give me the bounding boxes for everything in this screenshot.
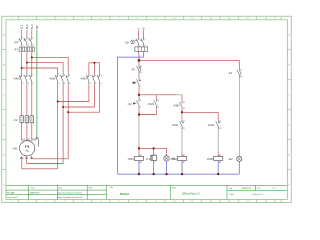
- lamp H2: [237, 156, 242, 161]
- wire red stub to junction G: [138, 146, 140, 148]
- svg-text:-H2: -H2: [228, 157, 233, 161]
- svg-text:Mont Quartier Essono foe: Mont Quartier Essono foe: [58, 196, 84, 199]
- coil KM3: [214, 156, 223, 160]
- junction N2: [153, 173, 155, 175]
- breaker Q2 pole 1: [135, 37, 138, 46]
- wire E to KM1 aux: [155, 95, 157, 99]
- svg-text:-KM3: -KM3: [173, 103, 180, 107]
- svg-text:-F1: -F1: [14, 48, 19, 52]
- svg-text:A2: A2: [219, 161, 221, 164]
- wire rail corner to lamp H1: [154, 148, 167, 155]
- svg-text:-F2: -F2: [228, 71, 233, 75]
- lamp H1: [164, 156, 169, 161]
- wire KM2 pole3 output down: [67, 84, 69, 158]
- thermal relay F2 pole 3: [30, 116, 34, 123]
- svg-text:21: 21: [183, 121, 185, 123]
- svg-text:-P1: -P1: [146, 157, 151, 161]
- wire control live rail: [139, 59, 239, 61]
- device P1 (hour counter): [151, 155, 157, 160]
- svg-text:4: 4: [28, 83, 29, 85]
- wire L1 to junction A: [21, 52, 23, 68]
- svg-text:5: 5: [101, 75, 102, 77]
- svg-text:A2: A2: [140, 161, 142, 164]
- wire phase L3 feed to KM2 pole3: [32, 57, 68, 73]
- svg-text:F: F: [289, 184, 291, 186]
- svg-text:E: E: [3, 154, 5, 156]
- wire rail to F2 aux contact: [138, 61, 140, 64]
- wire KM3 pole2 output to node D2: [63, 84, 94, 107]
- motor PE connection: [36, 138, 37, 140]
- svg-text:Folio: Folio: [172, 187, 176, 189]
- svg-text:-KM1: -KM1: [127, 157, 134, 161]
- wire phase L1 feed to KM2 pole1: [22, 68, 58, 73]
- svg-text:Folio: Folio: [88, 187, 92, 189]
- stop button S1 (NC): [133, 78, 141, 88]
- svg-text:1: 1: [90, 75, 91, 77]
- wire segment green to KM3 branch: [177, 94, 182, 96]
- wire H1 to N: [166, 161, 168, 174]
- thermal relay F2 pole 2: [25, 116, 29, 123]
- svg-text:3: 3: [140, 100, 141, 102]
- svg-text:Folio:: Folio:: [229, 194, 234, 196]
- svg-text:6: 6: [69, 83, 70, 85]
- svg-text:A1: A1: [140, 154, 142, 157]
- motor M1: [20, 141, 35, 156]
- junction N4: [181, 173, 183, 175]
- wire green corner down to KM3 aux: [181, 95, 183, 101]
- svg-text:11/08/2023: 11/08/2023: [242, 188, 251, 190]
- svg-text:Coty check: Coty check: [7, 196, 19, 199]
- wire S1 to junction E: [138, 87, 140, 94]
- wire L1 supply drop: [21, 30, 23, 37]
- svg-text:PE: PE: [35, 25, 39, 29]
- svg-text:2: 2: [23, 123, 24, 125]
- wire S2 bottom join: [139, 108, 156, 114]
- svg-text:-KM1: -KM1: [171, 123, 178, 127]
- wire L2 into KM1: [26, 63, 28, 73]
- svg-text:2: 2: [154, 162, 155, 164]
- contact KM2 interlock (NC): [216, 120, 221, 130]
- wire G down to KM1 coil: [138, 148, 140, 156]
- svg-text:13: 13: [183, 102, 185, 104]
- svg-text:98: 98: [240, 76, 242, 78]
- wire KM1 coil to N: [138, 160, 140, 174]
- wire coil feed rail: [139, 147, 154, 149]
- border frame outer: [2, 16, 291, 202]
- svg-text:QElectroTech 1.0: QElectroTech 1.0: [182, 192, 200, 195]
- wire gray down to junction G: [138, 116, 140, 147]
- junction C (L3 tap): [31, 57, 33, 59]
- wire P1 to N: [153, 160, 155, 174]
- wire live from Q2 to rail start: [137, 51, 140, 60]
- svg-text:1: 1: [154, 154, 155, 156]
- svg-text:6: 6: [101, 83, 102, 85]
- svg-text:Fol.: Fol.: [258, 188, 262, 190]
- svg-text:BINAM: BINAM: [120, 192, 130, 196]
- svg-text:-M1: -M1: [12, 147, 17, 151]
- svg-text:4: 4: [144, 45, 145, 47]
- junction G: [138, 147, 140, 149]
- svg-text:4: 4: [95, 83, 96, 85]
- svg-text:C: C: [3, 95, 5, 97]
- wire interlock down to KM2 coil: [181, 129, 183, 151]
- svg-text:A: A: [288, 34, 290, 37]
- svg-text:B: B: [288, 65, 290, 67]
- svg-text:96: 96: [140, 72, 142, 74]
- svg-text:3L2: 3L2: [25, 24, 29, 29]
- svg-text:1L1: 1L1: [20, 24, 24, 29]
- circuit breaker Q1 pole 3: [29, 37, 32, 47]
- svg-text:22: 22: [219, 128, 221, 130]
- wire neutral rail bottom: [118, 173, 240, 175]
- wire F2 pole 1 to motor: [21, 122, 23, 140]
- wire L3 to junction C: [31, 52, 33, 58]
- svg-text:A: A: [3, 34, 5, 37]
- svg-text:A1: A1: [219, 154, 221, 157]
- junction N1: [138, 173, 140, 175]
- wire KM2 pole2 output down: [62, 84, 64, 163]
- junction A (L1 tap): [21, 67, 23, 69]
- wire rail corner down to F2 aux NO: [238, 60, 240, 68]
- svg-text:-F2: -F2: [13, 118, 18, 122]
- svg-text:1: 1: [59, 75, 60, 77]
- svg-text:5: 5: [69, 75, 70, 77]
- wire H2 to N: [238, 162, 240, 175]
- svg-text:3: 3: [28, 38, 29, 40]
- svg-text:21: 21: [219, 121, 221, 123]
- svg-text:4: 4: [140, 107, 141, 109]
- wire F2 pole 2 to motor: [26, 122, 28, 140]
- svg-text:6: 6: [33, 45, 34, 47]
- svg-text:6: 6: [33, 123, 34, 125]
- wire L3 supply drop: [31, 30, 33, 37]
- contactor KM2 pole 1: [55, 73, 58, 84]
- svg-text:Date: Date: [58, 186, 62, 189]
- wire KM2 pole1 output down: [57, 84, 59, 168]
- wire I down gray: [181, 113, 183, 119]
- svg-text:Fol.: Fol.: [229, 188, 233, 190]
- svg-text:2: 2: [23, 83, 24, 85]
- wire KM1 pole 3 output to F2 thermal: [31, 84, 33, 115]
- contactor KM3 pole 3: [97, 73, 100, 84]
- svg-text:-KM1: -KM1: [148, 102, 155, 106]
- wire KM1 pole 1 output to F2 thermal: [21, 84, 23, 115]
- svg-text:2: 2: [23, 45, 24, 47]
- svg-text:22: 22: [183, 128, 185, 130]
- svg-text:4: 4: [64, 83, 65, 85]
- svg-text:-Q2: -Q2: [124, 40, 129, 44]
- contactor KM2 pole 3: [66, 73, 69, 84]
- wire phase L2 feed to KM2 pole2: [27, 63, 63, 74]
- contactor KM1 pole 3: [29, 73, 32, 84]
- svg-text:13: 13: [157, 100, 159, 102]
- svg-text:4: 4: [28, 123, 29, 125]
- svg-text:C: C: [288, 95, 290, 97]
- wire F2 pole 3 to motor: [31, 122, 33, 140]
- svg-text:1: 1: [139, 39, 140, 41]
- contact F2 aux NO (97-98): [237, 68, 241, 78]
- svg-text:D: D: [3, 125, 5, 127]
- wire L1 into KM1: [21, 69, 23, 74]
- svg-text:4: 4: [28, 45, 29, 47]
- wire KM3 pole1 output to node D1: [58, 84, 89, 101]
- svg-text:97: 97: [240, 70, 242, 72]
- contactor KM1 pole 2: [24, 73, 27, 84]
- svg-text:5: 5: [33, 38, 34, 40]
- junction D1: [57, 101, 59, 103]
- svg-text:-KM2: -KM2: [170, 157, 177, 161]
- svg-text:B: B: [3, 65, 5, 67]
- contactor KM1 pole 1: [19, 73, 22, 84]
- wire E down to S2: [138, 96, 140, 99]
- svg-text:1: 1: [23, 38, 24, 40]
- wire KM1 pole 2 output to F2 thermal: [26, 84, 28, 115]
- junction star point: [94, 62, 96, 64]
- coil KM1: [134, 156, 143, 160]
- svg-text:Titre: Titre: [31, 186, 35, 189]
- svg-text:3: 3: [95, 75, 96, 77]
- contactor KM2 pole 2: [61, 73, 64, 84]
- svg-text:-S2: -S2: [127, 102, 132, 106]
- svg-text:1: 1: [23, 75, 24, 77]
- svg-text:2: 2: [59, 83, 60, 85]
- contactor KM3 pole 2: [92, 73, 95, 84]
- svg-text:A2: A2: [183, 161, 185, 164]
- svg-text:F: F: [3, 184, 5, 186]
- junction I: [181, 111, 183, 113]
- border frame inner: [6, 20, 287, 200]
- svg-text:PE: PE: [36, 138, 40, 141]
- svg-text:2: 2: [90, 83, 91, 85]
- contact KM1 interlock (NC): [180, 120, 185, 130]
- wire L3 into KM1: [31, 58, 33, 73]
- wire PE vertical: [36, 30, 38, 139]
- svg-text:5L3: 5L3: [30, 24, 34, 29]
- wire I across to KM3 branch: [182, 111, 218, 113]
- svg-text:6: 6: [33, 83, 34, 85]
- breaker Q2 indicator circle: [131, 40, 135, 44]
- svg-text:GARVIEU: GARVIEU: [30, 191, 40, 194]
- junction B (L2 tap): [26, 62, 28, 64]
- contact F2 aux NC (95-96): [137, 65, 142, 74]
- svg-text:-S1: -S1: [131, 81, 136, 85]
- junction N3: [166, 173, 168, 175]
- svg-text:1 / 1: 1 / 1: [272, 188, 276, 190]
- svg-text:-KM3: -KM3: [80, 76, 87, 80]
- title block grid: [6, 185, 287, 199]
- svg-text:-KM3: -KM3: [206, 157, 213, 161]
- svg-text:E: E: [288, 154, 290, 156]
- svg-text:14: 14: [183, 108, 185, 110]
- fuse holder F1 pole 1: [19, 47, 21, 51]
- svg-text:-Q1: -Q1: [14, 40, 19, 44]
- svg-text:3: 3: [28, 116, 29, 118]
- svg-text:N: N: [142, 28, 146, 30]
- svg-text:-F2: -F2: [131, 67, 136, 71]
- wire motor V2 loop to KM2 pole3 output: [32, 156, 69, 159]
- svg-text:a-folio-ref 1:1: a-folio-ref 1:1: [252, 193, 263, 196]
- svg-text:-KM1: -KM1: [13, 76, 20, 80]
- wire KM3 aux to junction I: [181, 109, 183, 112]
- svg-text:Gare locomotive Yaound: Gare locomotive Yaound: [58, 191, 83, 194]
- svg-text:D: D: [288, 125, 290, 127]
- wire junction E across: [139, 94, 177, 96]
- svg-text:-KM2: -KM2: [208, 123, 215, 127]
- wire L2 supply drop: [26, 30, 28, 37]
- svg-text:5: 5: [33, 116, 34, 118]
- wire H down to P1: [153, 148, 155, 155]
- junction rail start: [138, 59, 140, 61]
- wire KM3 coil to N: [217, 160, 219, 174]
- wire motor W2 loop to KM2 pole1 output: [22, 156, 58, 169]
- contact KM3 aux (NO): [180, 100, 183, 109]
- svg-text:3: 3: [28, 75, 29, 77]
- svg-text:1: 1: [23, 116, 24, 118]
- circuit breaker Q1 pole 2: [24, 37, 27, 47]
- wire corner to KM2 interlock: [217, 112, 219, 119]
- svg-text:A1: A1: [183, 154, 185, 157]
- svg-text:1: 1: [136, 28, 140, 30]
- svg-text:3: 3: [144, 39, 145, 41]
- fuse holder F1 pole 3: [29, 47, 31, 51]
- svg-text:PE-BAH: PE-BAH: [7, 191, 16, 194]
- junction E: [138, 94, 140, 96]
- wire KM2 coil to N: [181, 160, 183, 174]
- junction H: [153, 147, 155, 149]
- thermal relay F2 pole 1: [20, 116, 24, 123]
- svg-text:14: 14: [157, 107, 159, 109]
- svg-text:3: 3: [64, 75, 65, 77]
- fuse holder F1 pole 2: [24, 47, 26, 51]
- junction N5: [217, 173, 219, 175]
- svg-text:Titre:: Titre:: [109, 186, 114, 189]
- wire motor U2 loop to KM2 pole2 output: [27, 156, 63, 164]
- coil KM2: [177, 156, 186, 160]
- junction D2: [62, 106, 64, 108]
- svg-text:2: 2: [139, 45, 140, 47]
- wire gray down to lamp H2: [238, 78, 240, 157]
- svg-text:5: 5: [33, 75, 34, 77]
- svg-text:2: 2: [140, 86, 141, 88]
- wire to KM3 coil: [217, 129, 219, 151]
- svg-text:95: 95: [140, 66, 142, 68]
- svg-text:-KM2: -KM2: [49, 76, 56, 80]
- terminal block Q2 strip: [135, 47, 148, 51]
- contactor KM3 pole 1: [86, 73, 89, 84]
- junction F: [138, 114, 140, 116]
- circuit breaker Q1 pole 1: [19, 37, 22, 47]
- wire F2 aux to S1: [138, 73, 140, 77]
- svg-text:1: 1: [140, 79, 141, 81]
- wire Q2 supply drops: [138, 30, 143, 37]
- wire star bridge: [89, 63, 100, 74]
- start button S2 (NO): [133, 99, 139, 109]
- junction D3: [67, 111, 69, 113]
- wire neutral from Q2 to N rail: [118, 51, 144, 174]
- wire L2 to junction B: [26, 52, 28, 63]
- contact KM1 aux (NO): [154, 99, 157, 109]
- wire KM3 pole3 output to node D3: [68, 84, 100, 112]
- breaker Q2 pole 2: [141, 37, 144, 46]
